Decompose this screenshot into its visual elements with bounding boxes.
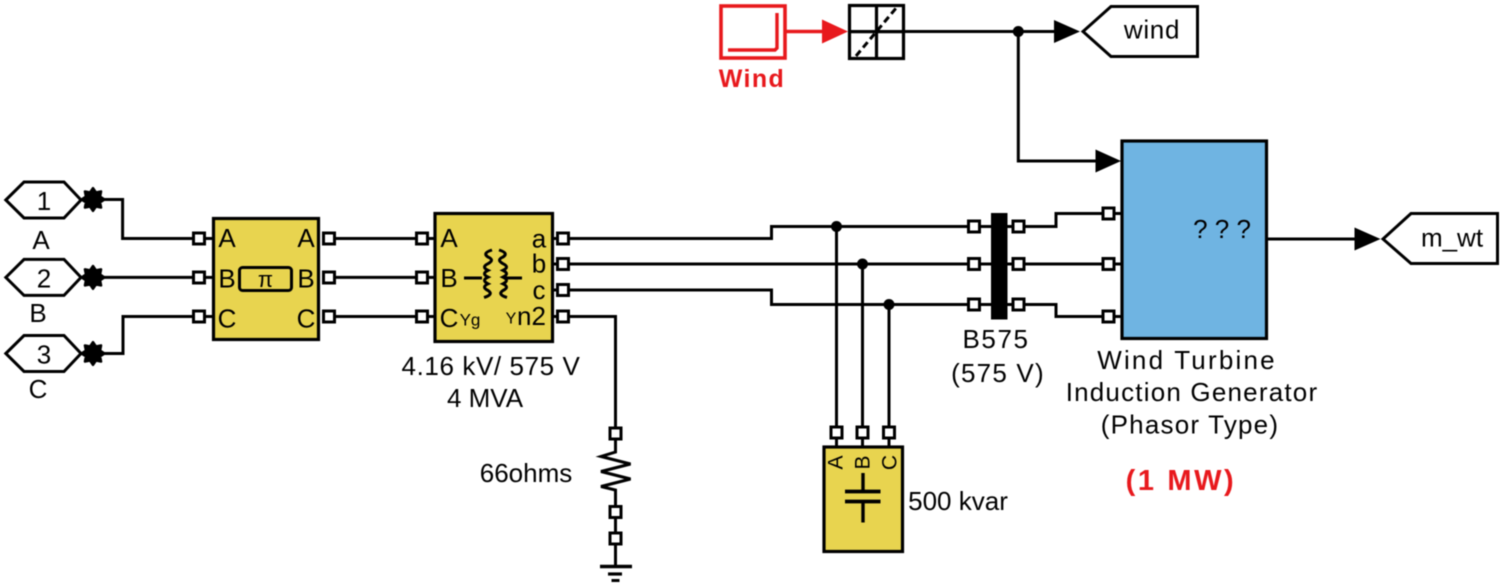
svg-text:4.16 kV/ 575 V: 4.16 kV/ 575 V xyxy=(402,351,581,381)
svg-text:m_wt: m_wt xyxy=(1421,223,1484,253)
port square pi B out xyxy=(324,272,335,283)
arrowhead into generator xyxy=(1096,150,1122,173)
svg-text:B: B xyxy=(440,263,457,293)
wire pi C to transformer C xyxy=(335,315,418,318)
svg-text:B: B xyxy=(218,264,235,294)
port squares out of bus B575 right xyxy=(1013,221,1024,232)
port square capacitor bank C xyxy=(884,427,895,438)
svg-text:1: 1 xyxy=(37,186,51,216)
svg-text:b: b xyxy=(532,249,546,279)
wire transformer b to bus (phase B) xyxy=(569,263,969,266)
port square transformer A in xyxy=(417,233,428,244)
port square pi A in xyxy=(194,233,205,244)
port square transformer a out xyxy=(558,233,569,244)
goto tag m_wt xyxy=(1383,214,1498,264)
svg-text:C: C xyxy=(29,374,48,404)
port square transformer c out xyxy=(558,285,569,296)
port square transformer B in xyxy=(417,272,428,283)
wire port1 to pi block A xyxy=(100,200,193,239)
svg-text:Wind: Wind xyxy=(719,65,785,93)
wire phase A down to capacitor bank xyxy=(835,227,838,428)
goto tag wind xyxy=(1083,7,1198,57)
connection blob port 2 xyxy=(82,266,105,289)
wire lookup to goto tag wind xyxy=(904,30,1057,33)
wire Wind to lookup table (red) xyxy=(785,20,848,44)
port square capacitor bank A xyxy=(831,427,842,438)
svg-text:500 kvar: 500 kvar xyxy=(908,486,1008,516)
svg-text:wind: wind xyxy=(1123,15,1180,45)
svg-text:Induction Generator: Induction Generator xyxy=(1066,377,1319,407)
svg-text:? ? ?: ? ? ? xyxy=(1193,214,1251,244)
wire phase C down to capacitor bank xyxy=(888,305,891,428)
wire ground stub xyxy=(614,544,617,565)
svg-text:2: 2 xyxy=(37,263,51,293)
junction phase B to capacitor bank xyxy=(857,259,868,270)
junction phase C to capacitor bank xyxy=(884,299,895,310)
svg-text:Y: Y xyxy=(506,311,517,328)
port square ground xyxy=(610,533,621,544)
svg-text:A: A xyxy=(297,223,315,253)
capacitor bank 500 kvar block xyxy=(824,447,903,552)
svg-text:A: A xyxy=(825,455,848,469)
svg-text:B: B xyxy=(297,264,314,294)
port square grounding resistor bottom xyxy=(610,507,621,518)
svg-text:(575 V): (575 V) xyxy=(951,358,1045,388)
wire bus to generator phase B xyxy=(1024,263,1103,266)
input port 1 xyxy=(6,182,81,218)
wire n2 to grounding resistor xyxy=(569,317,616,429)
resistor 66ohms (zigzag) xyxy=(601,439,631,505)
port square transformer b out xyxy=(558,259,569,270)
svg-text:B: B xyxy=(29,298,46,328)
input port 3 xyxy=(6,336,81,372)
wire bus to generator phase C xyxy=(1024,305,1103,317)
connection blob port 1 xyxy=(82,188,105,211)
svg-text:3: 3 xyxy=(37,340,51,370)
junction phase A to capacitor bank xyxy=(831,221,842,232)
port square transformer C in xyxy=(417,311,428,322)
wire transformer a to bus (phase A) xyxy=(569,227,969,239)
svg-text:π: π xyxy=(258,267,273,292)
svg-text:C: C xyxy=(440,303,459,333)
wire resistor to ground xyxy=(614,518,617,534)
svg-text:(1 MW): (1 MW) xyxy=(1126,465,1237,497)
port square pi B in xyxy=(194,272,205,283)
svg-text:B575: B575 xyxy=(962,324,1029,354)
wire port2 to pi block B xyxy=(100,276,193,279)
svg-text:(Phasor Type): (Phasor Type) xyxy=(1101,410,1279,440)
svg-text:4 MVA: 4 MVA xyxy=(447,383,524,413)
svg-text:Wind Turbine: Wind Turbine xyxy=(1097,345,1277,375)
port squares into bus B575 left xyxy=(969,221,980,232)
port square grounding resistor top xyxy=(610,428,621,439)
wire junction to generator wind input xyxy=(1018,32,1096,162)
port square pi C out xyxy=(324,311,335,322)
svg-text:66ohms: 66ohms xyxy=(480,458,573,488)
wire transformer c to bus (phase C) xyxy=(569,290,969,305)
svg-text:A: A xyxy=(32,225,50,255)
svg-text:Yg: Yg xyxy=(460,311,481,330)
svg-text:n2: n2 xyxy=(517,301,546,331)
arrowhead into wind tag xyxy=(1054,20,1080,43)
svg-text:A: A xyxy=(440,223,458,253)
ground symbol xyxy=(600,567,632,581)
transformer block 4.16kV/575V xyxy=(435,214,553,342)
svg-text:C: C xyxy=(297,304,316,334)
svg-text:B: B xyxy=(852,455,875,469)
port square pi C in xyxy=(194,311,205,322)
wire bus to generator phase A xyxy=(1024,214,1103,227)
input port 2 xyxy=(6,259,81,295)
wire pi A to transformer A xyxy=(335,237,418,240)
svg-text:C: C xyxy=(879,455,902,470)
wire phase B down to capacitor bank xyxy=(861,264,864,427)
arrowhead into m_wt tag xyxy=(1355,228,1381,251)
wire pi B to transformer B xyxy=(335,276,418,279)
svg-text:A: A xyxy=(218,223,236,253)
step source Wind xyxy=(721,6,785,58)
connection blob port 3 xyxy=(82,342,105,365)
wire port3 to pi block C xyxy=(100,317,193,354)
transformer winding icon xyxy=(464,277,482,280)
wire generator output to m_wt xyxy=(1267,238,1357,241)
junction on wind wire xyxy=(1013,26,1024,37)
port square transformer n2 out xyxy=(558,311,569,322)
port square capacitor bank B xyxy=(857,427,868,438)
lookup table block xyxy=(850,6,904,59)
capacitor symbol xyxy=(861,473,864,492)
port square pi A out xyxy=(324,233,335,244)
pi section line block xyxy=(214,219,319,340)
svg-text:C: C xyxy=(218,304,237,334)
bus B575 bar xyxy=(991,213,1008,320)
generator block Wind Turbine Induction Generator xyxy=(1122,141,1267,339)
